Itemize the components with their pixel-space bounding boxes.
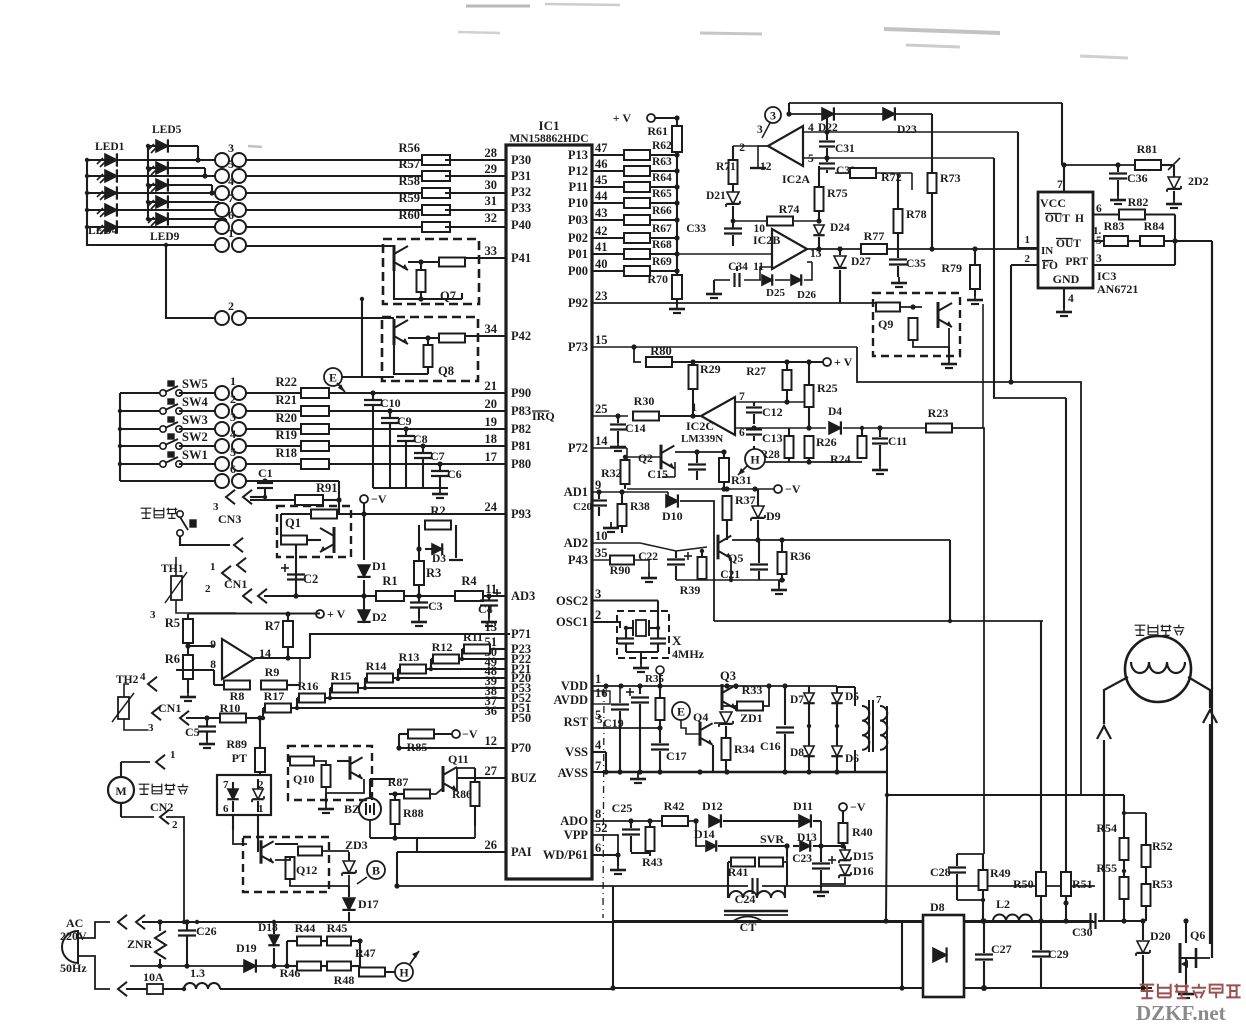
svg-text:P41: P41: [511, 251, 531, 265]
svg-text:D27: D27: [851, 256, 871, 268]
svg-text:R55: R55: [1096, 861, 1117, 875]
svg-text:19: 19: [485, 415, 498, 429]
svg-text:12: 12: [485, 734, 498, 748]
svg-text:7: 7: [1057, 179, 1063, 191]
svg-text:C34: C34: [728, 261, 748, 273]
svg-text:C25: C25: [612, 801, 633, 815]
svg-text:ADO: ADO: [560, 814, 588, 828]
svg-text:R67: R67: [652, 223, 672, 235]
svg-text:IC2C: IC2C: [686, 419, 714, 433]
svg-text:3: 3: [757, 124, 763, 136]
svg-text:D13: D13: [797, 832, 817, 844]
svg-text:1: 1: [228, 226, 234, 240]
svg-text:C21: C21: [720, 569, 740, 581]
svg-text:C1: C1: [258, 466, 273, 480]
svg-text:32: 32: [485, 211, 498, 225]
svg-text:SVR: SVR: [760, 832, 784, 846]
svg-text:FO: FO: [1042, 260, 1058, 272]
svg-text:7: 7: [595, 759, 601, 773]
svg-text:DZKF.net: DZKF.net: [1136, 1001, 1226, 1024]
svg-text:D24: D24: [830, 222, 850, 234]
svg-text:C27: C27: [991, 942, 1012, 956]
svg-text:P33: P33: [511, 201, 531, 215]
svg-text:C12: C12: [762, 405, 783, 419]
svg-text:R31: R31: [731, 473, 752, 487]
svg-text:1: 1: [210, 561, 216, 573]
svg-text:7: 7: [876, 694, 882, 706]
svg-text:P50: P50: [511, 711, 531, 725]
svg-text:D19: D19: [236, 941, 257, 955]
svg-text:17: 17: [485, 450, 498, 464]
svg-text:R73: R73: [940, 171, 961, 185]
svg-text:R40: R40: [852, 825, 873, 839]
svg-text:R88: R88: [403, 806, 424, 820]
svg-text:AD3: AD3: [511, 589, 535, 603]
svg-text:45: 45: [595, 173, 608, 187]
svg-text:R15: R15: [331, 669, 352, 683]
svg-text:1: 1: [230, 374, 236, 388]
svg-text:C4: C4: [478, 602, 493, 616]
svg-text:D18: D18: [258, 922, 278, 934]
svg-text:Q4: Q4: [693, 710, 708, 724]
svg-text:10A: 10A: [143, 970, 164, 984]
svg-text:C6: C6: [447, 467, 462, 481]
svg-text:P00: P00: [568, 264, 588, 278]
svg-text:R38: R38: [630, 501, 650, 513]
svg-text:LM339N: LM339N: [681, 433, 723, 445]
svg-text:AN6721: AN6721: [1097, 282, 1138, 296]
svg-text:R46: R46: [280, 966, 301, 980]
svg-text:P01: P01: [568, 247, 588, 261]
svg-text:R85: R85: [407, 740, 428, 754]
svg-text:8: 8: [595, 807, 601, 821]
svg-text:D3: D3: [432, 553, 446, 565]
svg-text:R91: R91: [316, 481, 338, 495]
svg-text:C11: C11: [888, 436, 907, 448]
svg-text:3: 3: [595, 587, 601, 601]
svg-text:6: 6: [230, 462, 236, 476]
svg-text:P43: P43: [568, 553, 588, 567]
svg-text:R61: R61: [647, 124, 668, 138]
svg-text:R59: R59: [398, 191, 420, 205]
svg-text:R14: R14: [366, 659, 387, 673]
svg-text:2: 2: [228, 299, 234, 313]
svg-text:PRT: PRT: [1065, 256, 1088, 268]
svg-text:R63: R63: [652, 156, 672, 168]
svg-text:P10: P10: [568, 196, 588, 210]
svg-text:D20: D20: [1150, 929, 1171, 943]
svg-text:D14: D14: [694, 827, 715, 841]
svg-text:ZD1: ZD1: [740, 711, 763, 725]
svg-text:2: 2: [230, 392, 236, 406]
svg-text:R32: R32: [601, 466, 622, 480]
svg-text:−V: −V: [371, 492, 387, 506]
svg-text:ZD3: ZD3: [345, 838, 368, 852]
svg-text:P32: P32: [511, 185, 531, 199]
svg-text:R81: R81: [1137, 142, 1158, 156]
svg-text:B: B: [372, 864, 380, 878]
svg-text:OSC2: OSC2: [556, 594, 588, 608]
svg-text:H: H: [399, 966, 409, 980]
svg-text:3: 3: [150, 609, 156, 621]
svg-text:IN: IN: [1041, 245, 1053, 257]
svg-text:AD2: AD2: [564, 536, 588, 550]
svg-text:4: 4: [1068, 293, 1074, 305]
svg-text:R51: R51: [1072, 877, 1093, 891]
svg-text:R68: R68: [652, 239, 672, 251]
svg-text:R20: R20: [275, 411, 297, 425]
svg-text:R89: R89: [226, 737, 247, 751]
svg-text:40: 40: [595, 257, 608, 271]
svg-text:C13: C13: [762, 431, 783, 445]
svg-text:2: 2: [205, 583, 211, 595]
svg-text:P40: P40: [511, 218, 531, 232]
svg-text:R77: R77: [864, 229, 885, 243]
svg-text:GND: GND: [1053, 272, 1080, 286]
svg-text:10: 10: [595, 529, 608, 543]
svg-text:3: 3: [770, 109, 776, 123]
svg-text:Q12: Q12: [296, 863, 317, 877]
svg-text:R1: R1: [382, 574, 397, 588]
svg-text:R66: R66: [652, 205, 672, 217]
svg-text:−V: −V: [462, 727, 478, 741]
svg-text:R86: R86: [452, 789, 472, 801]
svg-text:X: X: [672, 633, 682, 648]
svg-text:CN2: CN2: [150, 800, 173, 814]
svg-text:D1: D1: [372, 559, 387, 573]
svg-text:42: 42: [595, 224, 608, 238]
svg-text:E: E: [329, 371, 337, 385]
svg-text:P92: P92: [568, 296, 588, 310]
svg-text:24: 24: [485, 500, 498, 514]
svg-text:R33: R33: [742, 683, 763, 697]
svg-text:P93: P93: [511, 507, 531, 521]
svg-text:R43: R43: [642, 855, 663, 869]
svg-text:1: 1: [595, 672, 601, 686]
svg-text:IC3: IC3: [1097, 269, 1116, 283]
svg-text:1: 1: [170, 749, 176, 761]
svg-text:CN3: CN3: [218, 512, 241, 526]
svg-text:LED9: LED9: [150, 231, 180, 243]
svg-text:P30: P30: [511, 153, 531, 167]
svg-text:R49: R49: [990, 866, 1011, 880]
svg-text:R18: R18: [275, 446, 297, 460]
svg-text:P42: P42: [511, 329, 531, 343]
svg-text:4: 4: [228, 174, 234, 188]
svg-text:R30: R30: [634, 394, 655, 408]
svg-text:P72: P72: [568, 441, 588, 455]
svg-text:BUZ: BUZ: [511, 771, 537, 785]
svg-text:R65: R65: [652, 188, 672, 200]
svg-text:3: 3: [230, 410, 236, 424]
svg-text:P83: P83: [511, 404, 531, 418]
svg-text:C17: C17: [666, 749, 687, 763]
svg-text:D12: D12: [702, 799, 723, 813]
svg-text:C9: C9: [397, 414, 412, 428]
svg-text:C14: C14: [625, 421, 646, 435]
svg-text:IC2B: IC2B: [753, 233, 780, 247]
svg-text:4MHz: 4MHz: [672, 647, 705, 661]
svg-text:18: 18: [485, 432, 498, 446]
svg-text:4: 4: [140, 671, 146, 683]
svg-text:AVSS: AVSS: [558, 766, 588, 780]
svg-text:26: 26: [485, 838, 498, 852]
svg-text:R69: R69: [652, 256, 672, 268]
svg-text:6: 6: [595, 841, 601, 855]
svg-text:P80: P80: [511, 457, 531, 471]
svg-text:R2: R2: [430, 504, 445, 518]
svg-text:R19: R19: [275, 428, 297, 442]
svg-text:PT: PT: [232, 751, 247, 765]
svg-text:R36: R36: [790, 549, 811, 563]
svg-text:CT: CT: [740, 920, 757, 934]
svg-text:R5: R5: [165, 616, 180, 630]
svg-text:R47: R47: [355, 946, 376, 960]
svg-text:P12: P12: [568, 164, 588, 178]
svg-text:C16: C16: [760, 739, 781, 753]
svg-text:2: 2: [739, 142, 745, 154]
svg-text:P70: P70: [511, 741, 531, 755]
svg-text:R52: R52: [1152, 839, 1173, 853]
svg-text:OUT: OUT: [1056, 238, 1081, 250]
svg-text:44: 44: [595, 189, 608, 203]
svg-text:D16: D16: [853, 864, 874, 878]
svg-text:6: 6: [1096, 203, 1102, 215]
svg-text:R13: R13: [399, 650, 420, 664]
svg-text:D21: D21: [706, 190, 726, 202]
svg-text:VSS: VSS: [565, 745, 588, 759]
svg-text:P81: P81: [511, 439, 531, 453]
svg-text:R60: R60: [398, 208, 420, 222]
svg-text:VCC: VCC: [1040, 196, 1066, 210]
svg-text:47: 47: [595, 141, 608, 155]
svg-text:1.3: 1.3: [190, 966, 205, 980]
svg-text:R71: R71: [716, 161, 736, 173]
svg-text:R79: R79: [941, 261, 962, 275]
svg-text:C29: C29: [1048, 947, 1069, 961]
svg-text:D26: D26: [797, 289, 816, 301]
svg-text:LED5: LED5: [152, 124, 182, 136]
svg-text:D5: D5: [845, 691, 859, 703]
svg-text:H: H: [1075, 213, 1084, 225]
svg-text:LED4: LED4: [88, 225, 118, 237]
svg-text:P02: P02: [568, 231, 588, 245]
svg-text:R57: R57: [398, 157, 420, 171]
svg-text:RST: RST: [564, 715, 589, 729]
svg-text:R9: R9: [265, 665, 280, 679]
svg-text:R58: R58: [398, 174, 420, 188]
svg-text:−V: −V: [850, 800, 866, 814]
svg-text:P90: P90: [511, 386, 531, 400]
svg-text:R80: R80: [650, 344, 672, 358]
svg-text:P73: P73: [568, 340, 588, 354]
svg-text:R26: R26: [816, 435, 837, 449]
svg-text:C31: C31: [835, 143, 855, 155]
svg-text:PAI: PAI: [511, 845, 532, 859]
svg-text:28: 28: [485, 146, 498, 160]
svg-text:5: 5: [228, 157, 234, 171]
svg-text:C7: C7: [430, 449, 445, 463]
svg-text:23: 23: [595, 289, 608, 303]
svg-text:R4: R4: [461, 574, 477, 588]
svg-text:7: 7: [228, 191, 234, 205]
svg-text:Q8: Q8: [438, 364, 454, 378]
svg-text:C20: C20: [573, 501, 592, 513]
svg-text:15: 15: [595, 333, 608, 347]
svg-text:D6: D6: [845, 753, 859, 765]
svg-text:Q11: Q11: [448, 752, 469, 766]
svg-text:Q2: Q2: [638, 453, 653, 465]
svg-text:CN1: CN1: [158, 701, 181, 715]
svg-text:R24: R24: [830, 452, 851, 466]
svg-text:D4: D4: [828, 406, 842, 418]
svg-text:43: 43: [595, 206, 608, 220]
svg-text:−V: −V: [785, 482, 801, 496]
svg-text:C26: C26: [196, 924, 217, 938]
svg-text:D8: D8: [790, 747, 804, 759]
svg-text:R83: R83: [1104, 219, 1125, 233]
svg-text:LED1: LED1: [95, 141, 125, 153]
svg-text:R35: R35: [645, 673, 664, 685]
svg-text:R6: R6: [165, 652, 180, 666]
svg-text:C3: C3: [428, 599, 443, 613]
svg-text:34: 34: [485, 322, 498, 336]
svg-text:AD1: AD1: [564, 485, 588, 499]
svg-text:P71: P71: [511, 627, 531, 641]
svg-text:D2: D2: [372, 610, 387, 624]
svg-text:21: 21: [485, 379, 498, 393]
svg-text:R78: R78: [906, 207, 927, 221]
svg-text:35: 35: [595, 546, 608, 560]
svg-text:D15: D15: [853, 849, 874, 863]
svg-text:R29: R29: [700, 362, 721, 376]
svg-text:SW4: SW4: [182, 395, 208, 409]
svg-text:4: 4: [230, 427, 236, 441]
svg-text:SW3: SW3: [182, 413, 208, 427]
svg-text:R64: R64: [652, 172, 672, 184]
svg-text:R7: R7: [265, 619, 280, 633]
svg-text:R82: R82: [1128, 195, 1149, 209]
svg-text:R34: R34: [734, 742, 755, 756]
svg-text:IC1: IC1: [539, 118, 560, 133]
svg-text:R54: R54: [1096, 821, 1117, 835]
svg-text:Q10: Q10: [293, 772, 314, 786]
svg-text:20: 20: [485, 397, 498, 411]
svg-text:SW2: SW2: [182, 430, 208, 444]
svg-text:R10: R10: [220, 701, 241, 715]
svg-text:R45: R45: [327, 921, 348, 935]
svg-text:C33: C33: [686, 223, 706, 235]
svg-text:R87: R87: [388, 775, 409, 789]
svg-text:R42: R42: [664, 799, 685, 813]
svg-text:R37: R37: [735, 493, 756, 507]
svg-text:H: H: [750, 453, 760, 467]
svg-text:R50: R50: [1013, 877, 1034, 891]
svg-text:D8: D8: [930, 900, 945, 914]
svg-text:P31: P31: [511, 169, 531, 183]
svg-text:C2: C2: [303, 572, 318, 586]
svg-text:R90: R90: [610, 563, 631, 577]
svg-text:33: 33: [485, 244, 498, 258]
svg-text:C36: C36: [1127, 171, 1148, 185]
svg-text:Q7: Q7: [440, 289, 456, 303]
svg-text:R22: R22: [275, 375, 297, 389]
svg-text:R17: R17: [264, 689, 285, 703]
svg-text:P13: P13: [568, 148, 588, 162]
svg-text:31: 31: [485, 194, 498, 208]
svg-text:R39: R39: [680, 583, 701, 597]
svg-text:6: 6: [223, 803, 229, 815]
svg-text:6: 6: [228, 208, 234, 222]
svg-text:R25: R25: [817, 381, 838, 395]
svg-text:2: 2: [595, 608, 601, 622]
svg-text:D17: D17: [358, 897, 379, 911]
svg-text:Q1: Q1: [285, 516, 301, 530]
svg-text:R27: R27: [746, 366, 766, 378]
svg-text:5: 5: [230, 445, 236, 459]
svg-text:M: M: [115, 784, 126, 798]
svg-text:11: 11: [485, 582, 497, 596]
svg-text:29: 29: [485, 162, 498, 176]
svg-text:C10: C10: [380, 396, 401, 410]
svg-text:E: E: [677, 705, 685, 719]
svg-text:3: 3: [1096, 253, 1102, 265]
svg-text:30: 30: [485, 178, 498, 192]
svg-text:P03: P03: [568, 213, 588, 227]
svg-text:C8: C8: [413, 432, 428, 446]
svg-text:R11: R11: [463, 630, 483, 644]
svg-text:D11: D11: [793, 799, 813, 813]
svg-text:Q6: Q6: [1190, 928, 1205, 942]
svg-text:46: 46: [595, 157, 608, 171]
svg-text:R70: R70: [647, 272, 668, 286]
svg-text:3: 3: [148, 722, 154, 734]
svg-text:R62: R62: [652, 140, 672, 152]
svg-text:L2: L2: [996, 897, 1010, 911]
svg-text:C23: C23: [792, 853, 812, 865]
svg-text:50Hz: 50Hz: [60, 961, 87, 975]
svg-text:220V: 220V: [60, 929, 87, 943]
svg-text:D23: D23: [897, 124, 917, 136]
svg-text:R23: R23: [928, 406, 949, 420]
svg-text:TH1: TH1: [161, 563, 184, 575]
svg-text:BZ: BZ: [344, 802, 360, 816]
svg-text:D7: D7: [790, 694, 804, 706]
svg-text:5: 5: [808, 153, 814, 165]
svg-text:C15: C15: [647, 467, 668, 481]
svg-text:R84: R84: [1144, 219, 1165, 233]
svg-text:WD/P61: WD/P61: [543, 848, 588, 862]
svg-text:P11: P11: [569, 180, 588, 194]
svg-text:CN1: CN1: [224, 577, 247, 591]
svg-text:OSC1: OSC1: [556, 615, 588, 629]
svg-text:R12: R12: [432, 640, 453, 654]
svg-text:VDD: VDD: [561, 679, 588, 693]
svg-text:MN158862HDC: MN158862HDC: [509, 133, 588, 145]
svg-text:14: 14: [595, 434, 608, 448]
svg-text:3: 3: [228, 141, 234, 155]
svg-text:41: 41: [595, 240, 608, 254]
svg-text:+ V: + V: [327, 607, 346, 621]
svg-text:OUT: OUT: [1045, 213, 1070, 225]
svg-text:27: 27: [485, 764, 498, 778]
svg-text:SW5: SW5: [182, 377, 208, 391]
svg-text:D9: D9: [766, 509, 781, 523]
svg-text:25: 25: [595, 402, 608, 416]
svg-text:C28: C28: [930, 865, 951, 879]
svg-text:+ V: + V: [834, 355, 853, 369]
svg-text:R41: R41: [728, 865, 749, 879]
